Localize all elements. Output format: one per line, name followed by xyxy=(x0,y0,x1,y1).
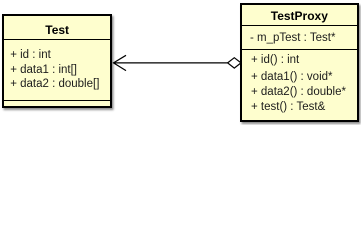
method test() xyxy=(251,101,325,113)
method data2() xyxy=(251,86,346,98)
TestProxy title compartment xyxy=(242,9,357,23)
class TestProxy xyxy=(240,3,359,122)
method data1() xyxy=(251,71,333,83)
TestProxy title separator xyxy=(242,25,357,26)
wire Test-TestProxy xyxy=(114,62,228,64)
Test title separator xyxy=(4,39,110,40)
open diamond at TestProxy xyxy=(228,58,241,68)
attribute data1 xyxy=(10,64,77,76)
attribute data2 xyxy=(10,78,99,90)
TestProxy methods separator xyxy=(242,49,357,50)
method id() xyxy=(251,54,299,66)
aggregation connector xyxy=(0,0,361,125)
Test methods separator xyxy=(4,100,110,101)
open arrowhead at Test xyxy=(114,55,127,70)
attribute id xyxy=(10,49,51,61)
attribute m_pTest xyxy=(250,32,335,44)
class Test xyxy=(2,14,112,107)
Test title compartment xyxy=(4,23,110,37)
